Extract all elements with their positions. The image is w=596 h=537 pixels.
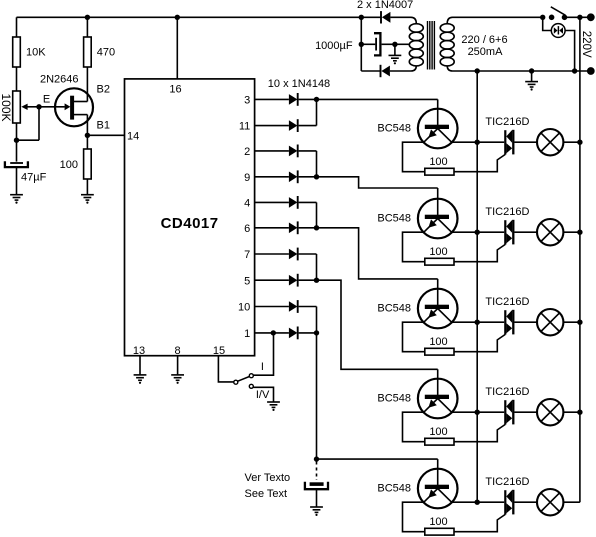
node pair output 9 <box>314 174 319 179</box>
wire D2 cathode <box>361 70 380 72</box>
transformer T1 secondary winding <box>409 24 423 66</box>
wire pair bus rows 4-6 <box>316 202 318 227</box>
lamp LP2 <box>537 219 563 245</box>
pin 7 label <box>244 249 250 261</box>
wire pair 10-1 down to stage 5 <box>316 333 318 459</box>
label Q4 BC548 <box>377 302 411 314</box>
svg-text:100: 100 <box>429 156 447 168</box>
pin 14 label <box>127 130 139 142</box>
svg-text:BC548: BC548 <box>377 482 411 494</box>
svg-text:BC548: BC548 <box>377 392 411 404</box>
switch S2 lever <box>238 377 250 382</box>
pin 1 label <box>244 328 250 340</box>
svg-text:100: 100 <box>60 159 78 171</box>
svg-text:CD4017: CD4017 <box>161 215 219 232</box>
svg-text:13: 13 <box>133 345 145 357</box>
wire wiper to pot bottom <box>17 139 40 141</box>
svg-text:9: 9 <box>244 172 250 184</box>
wire B1 node to R3 <box>86 135 88 149</box>
label See Text <box>245 488 288 500</box>
pin 8 label <box>175 345 181 357</box>
diode 1N4148 on pin 2 <box>289 145 298 158</box>
triac TRI1 TIC216D <box>505 130 513 155</box>
svg-text:220 / 6+6: 220 / 6+6 <box>461 34 507 46</box>
wire center tap <box>395 43 410 45</box>
transistor Q2 BC548 <box>418 109 458 149</box>
transistor Q3 BC548 <box>418 199 458 239</box>
transformer T1 core <box>428 21 435 70</box>
wire secondary bottom lead <box>411 66 417 71</box>
svg-text:TIC216D: TIC216D <box>485 386 529 398</box>
wire diode pin 5 cathode <box>299 279 317 281</box>
label R4 value 100 <box>429 156 447 168</box>
node collector bus stage 3 <box>475 320 480 325</box>
wire base route stage 4 <box>317 280 438 369</box>
resistor R7 100 <box>425 438 454 445</box>
transformer T1 primary winding <box>440 24 454 66</box>
diode 1N4148 on pin 10 <box>289 300 298 313</box>
wire R4 to gate <box>454 154 505 171</box>
wire base route stage 3 <box>317 228 438 279</box>
wire Q2 emitter to R4 <box>403 142 425 172</box>
wire R5 to gate <box>454 244 505 261</box>
label Q1 2N2646 <box>40 73 79 85</box>
node collector bus stage 5 <box>475 500 480 505</box>
transistor Q3 BC548 base lead <box>437 188 439 217</box>
node rail / D1 junction <box>359 15 364 20</box>
svg-text:BC548: BC548 <box>377 212 411 224</box>
diode 1N4148 on pin 11 <box>289 119 298 132</box>
pin 5 label <box>244 275 250 287</box>
pin 3 label <box>244 95 250 107</box>
wire left rail to 10K <box>16 17 18 37</box>
svg-text:I: I <box>261 361 264 373</box>
wire neon right <box>565 31 575 72</box>
wire switch to terminal <box>565 16 591 18</box>
wire diode pin 7 cathode <box>299 253 317 255</box>
wire pin 16 to rail <box>176 17 178 79</box>
wire bus to triac MT2 stage 1 <box>477 141 504 143</box>
wire lamp to rail stage 1 <box>563 141 580 143</box>
wire pin 7 stub <box>255 253 289 255</box>
wire diode pin 6 cathode <box>299 227 317 229</box>
svg-text:100: 100 <box>429 516 447 528</box>
switch S2 throw I contact <box>249 374 253 378</box>
pin 16 label <box>169 83 181 95</box>
svg-text:BC548: BC548 <box>377 302 411 314</box>
wire pin 1 stub <box>255 332 289 334</box>
svg-text:100: 100 <box>429 336 447 348</box>
svg-text:TIC216D: TIC216D <box>485 206 529 218</box>
wire Q5 emitter to R7 <box>403 412 425 442</box>
svg-text:B1: B1 <box>97 120 110 132</box>
transistor Q1 2N2646 UJT <box>39 88 93 126</box>
node rail lamp 1 <box>577 140 582 145</box>
node bottom wire / MT2 bus <box>475 68 480 73</box>
potentiometer P1 wiper arrow <box>21 104 39 110</box>
svg-text:47µF: 47µF <box>21 172 47 184</box>
wire pin 5 stub <box>255 279 289 281</box>
label C2 value 1000uF <box>315 40 353 52</box>
wire wiper junction down <box>38 107 40 140</box>
wire diode pin 10 cathode <box>299 306 317 308</box>
wire B1 node to pin 14 <box>87 134 124 136</box>
svg-text:2 x 1N4007: 2 x 1N4007 <box>357 0 413 11</box>
svg-text:10 x 1N4148: 10 x 1N4148 <box>268 78 330 90</box>
wire base route stage 1 <box>317 98 438 100</box>
svg-text:250mA: 250mA <box>468 46 504 58</box>
lamp LP3 <box>537 309 563 335</box>
wire base route stage 5 <box>317 458 438 460</box>
svg-text:15: 15 <box>213 345 225 357</box>
wire throw I to pin1 row <box>253 333 273 375</box>
resistor R1 10K <box>13 37 21 67</box>
transistor Q6 BC548 base lead <box>437 459 439 487</box>
node collector bus stage 4 <box>475 410 480 415</box>
wire Q4 collector to bus <box>452 321 478 323</box>
svg-text:6: 6 <box>244 223 250 235</box>
label T1 220 / 6+6 <box>461 34 507 46</box>
lamp LP1 <box>537 129 563 155</box>
capacitor C1 47uF <box>5 161 28 167</box>
wire bus to triac MT2 stage 2 <box>477 231 504 233</box>
node top rail / pin16 junction <box>175 15 180 20</box>
wire secondary top lead <box>411 17 417 23</box>
label T1 250mA <box>468 46 504 58</box>
diode 1N4148 on pin 3 <box>289 93 298 106</box>
wire B1 down to node <box>86 115 88 136</box>
wire lamp to rail stage 3 <box>563 321 580 323</box>
label E <box>43 94 50 106</box>
triac TRI2 TIC216D <box>505 220 513 245</box>
node pin1 row to switch <box>271 330 276 335</box>
wire Q3 collector to bus <box>452 231 478 233</box>
diode 1N4148 on pin 4 <box>289 196 298 209</box>
wire diode pin 4 cathode <box>299 201 317 203</box>
resistor R8 100 <box>425 528 454 535</box>
label R2 value 470 <box>97 47 115 59</box>
wire pair bus rows 2-9 <box>316 151 318 177</box>
node collector bus stage 1 <box>475 140 480 145</box>
wire diode pin 2 cathode <box>299 150 317 152</box>
svg-text:I/V: I/V <box>256 389 270 401</box>
label TRI3 TIC216D <box>485 296 529 308</box>
svg-text:3: 3 <box>244 95 250 107</box>
label I <box>261 361 264 373</box>
capacitor C2 1000uF <box>374 33 380 55</box>
wire 470 top <box>86 17 88 37</box>
wire pair bus rows 7-5 <box>316 254 318 280</box>
wire C2 left lead <box>361 43 375 45</box>
label Q2 BC548 <box>377 122 411 134</box>
resistor R4 100 <box>425 168 454 175</box>
wire R7 to gate <box>454 424 505 441</box>
wire R8 to gate <box>454 514 505 531</box>
lamp LP5 <box>537 489 563 515</box>
label TRI4 TIC216D <box>485 386 529 398</box>
wire Q6 collector to bus <box>452 501 478 503</box>
label TRI5 TIC216D <box>485 476 529 488</box>
node C2 ground junction <box>392 42 397 47</box>
node 220V rail junction <box>577 15 582 20</box>
wire pin 11 stub <box>255 125 289 127</box>
wire pair bus rows 10-1 <box>316 307 318 333</box>
svg-text:470: 470 <box>97 47 115 59</box>
wire lamp to rail stage 2 <box>563 231 580 233</box>
node rail lamp 4 <box>577 410 582 415</box>
svg-text:4: 4 <box>244 198 250 210</box>
wire primary top lead <box>447 17 543 23</box>
lamp LP4 <box>537 399 563 425</box>
diode 1N4148 on pin 7 <box>289 248 298 261</box>
label B2 <box>97 84 110 96</box>
wire bus to triac MT2 stage 3 <box>477 321 504 323</box>
wire rectifier vertical <box>360 17 362 71</box>
wire Q6 emitter to R8 <box>403 502 425 532</box>
transistor Q5 BC548 <box>418 379 458 419</box>
label 10 x 1N4148 <box>268 78 330 90</box>
wire triac to lamp stage 3 <box>514 321 537 323</box>
resistor R2 470 <box>84 37 92 67</box>
node pair output 5 <box>314 278 319 283</box>
ground below R3 <box>81 179 94 204</box>
wire neon left <box>543 17 552 30</box>
wire pin 10 stub <box>255 306 289 308</box>
node pair output 1 <box>314 330 319 335</box>
wire pot to C1 <box>16 123 18 162</box>
label Q6 BC548 <box>377 482 411 494</box>
transistor Q4 BC548 base lead <box>437 279 439 307</box>
pin 10 label <box>238 302 250 314</box>
wire C2 right lead <box>382 43 395 45</box>
svg-text:See Text: See Text <box>245 488 288 500</box>
node stage 5 base / C3 junction <box>314 456 319 461</box>
switch S1 contacts <box>549 14 568 20</box>
node neon / bottom wire <box>572 68 577 73</box>
label Q3 BC548 <box>377 212 411 224</box>
terminal 220V top <box>587 13 595 21</box>
wire pin 3 stub <box>255 98 289 100</box>
transistor Q4 BC548 <box>418 289 458 329</box>
wire lamp 5 to rail corner <box>563 501 580 503</box>
svg-text:10K: 10K <box>26 47 46 59</box>
node rail lamp 2 <box>577 230 582 235</box>
svg-text:5: 5 <box>244 275 250 287</box>
label R1 value 10K <box>26 47 46 59</box>
wire 10K to pot <box>16 67 18 91</box>
label R6 value 100 <box>429 336 447 348</box>
triac TRI5 TIC216D <box>505 490 513 515</box>
resistor R5 100 <box>425 258 454 265</box>
svg-text:14: 14 <box>127 130 139 142</box>
pin 6 label <box>244 223 250 235</box>
pin 4 label <box>244 198 250 210</box>
svg-text:1000µF: 1000µF <box>315 40 353 52</box>
label P1 value 100K rotated <box>0 93 13 121</box>
ground below C1 <box>10 167 23 204</box>
wire pin 6 stub <box>255 227 289 229</box>
label U1 CD4017 <box>161 215 219 232</box>
wire bus to triac MT2 stage 5 <box>477 501 504 503</box>
svg-text:E: E <box>43 94 50 106</box>
label 220V rotated <box>580 31 592 58</box>
label TRI2 TIC216D <box>485 206 529 218</box>
node C2 junction <box>359 42 364 47</box>
wire primary bottom lead <box>447 66 590 71</box>
svg-text:TIC216D: TIC216D <box>485 296 529 308</box>
diode 1N4148 on pin 9 <box>289 170 298 183</box>
wire pair bus rows 3-11 <box>316 99 318 125</box>
svg-text:100: 100 <box>429 246 447 258</box>
wire diode pin 3 cathode <box>299 98 317 100</box>
wire base route stage 2 <box>317 177 438 188</box>
wire C3 dashed lead <box>316 462 318 481</box>
node bottom wire / ground <box>529 68 534 73</box>
svg-text:2: 2 <box>244 146 250 158</box>
wire triac to lamp stage 1 <box>514 141 537 143</box>
switch S2 throw I/V contact <box>249 384 253 388</box>
node E wiper junction <box>36 104 41 109</box>
diode 1N4148 on pin 1 <box>289 327 298 340</box>
node pair output 6 <box>314 225 319 230</box>
svg-text:1: 1 <box>244 328 250 340</box>
svg-text:TIC216D: TIC216D <box>485 116 529 128</box>
wire MT2 bus <box>476 71 478 502</box>
switch S1 lever <box>551 7 566 16</box>
wire lamp to rail stage 4 <box>563 411 580 413</box>
wire pin 15 to switch <box>218 356 233 382</box>
triac TRI4 TIC216D <box>505 400 513 425</box>
svg-text:100: 100 <box>429 426 447 438</box>
svg-text:100K: 100K <box>0 93 13 121</box>
wire bus to triac MT2 stage 4 <box>477 411 504 413</box>
wire Q2 collector to bus <box>452 141 478 143</box>
label R8 value 100 <box>429 516 447 528</box>
ground below I/V switch <box>267 402 280 411</box>
wire triac to lamp stage 5 <box>514 501 537 503</box>
wire pin 4 stub <box>255 201 289 203</box>
label R7 value 100 <box>429 426 447 438</box>
label C1 value 47uF <box>21 172 47 184</box>
ground pin 8 <box>171 356 184 384</box>
svg-text:2N2646: 2N2646 <box>40 73 79 85</box>
transistor Q6 BC548 <box>418 469 458 509</box>
ground below C2 <box>389 44 402 64</box>
node primary top / neon junction <box>540 15 545 20</box>
svg-text:B2: B2 <box>97 84 110 96</box>
svg-text:10: 10 <box>238 302 250 314</box>
wire diode pin 11 cathode <box>299 125 317 127</box>
triac TRI3 TIC216D <box>505 310 513 335</box>
diode 1N4148 on pin 6 <box>289 221 298 234</box>
svg-text:TIC216D: TIC216D <box>485 476 529 488</box>
ground below C3 <box>310 489 323 516</box>
ground pin 13 <box>134 356 147 384</box>
capacitor C3 (see text) <box>305 482 328 490</box>
wire Q4 emitter to R6 <box>403 322 425 352</box>
svg-text:Ver Texto: Ver Texto <box>245 472 291 484</box>
label 2 x 1N4007 <box>357 0 413 11</box>
node collector bus stage 2 <box>475 230 480 235</box>
potentiometer P1 100K body <box>13 91 21 123</box>
diode 1N4148 on pin 5 <box>289 274 298 287</box>
op-amp U1 CD4017 IC body <box>125 79 255 356</box>
ground below bottom wire <box>525 71 538 91</box>
label R3 value 100 <box>60 159 78 171</box>
pin 13 label <box>133 345 145 357</box>
svg-text:220V: 220V <box>580 31 592 58</box>
wire R6 to gate <box>454 334 505 351</box>
label Q5 BC548 <box>377 392 411 404</box>
terminal 220V bottom <box>587 67 595 75</box>
wire pin 9 stub <box>255 176 289 178</box>
wire Q3 emitter to R5 <box>403 232 425 262</box>
resistor R3 100 <box>84 149 92 179</box>
switch S2 pole contact <box>234 380 238 384</box>
svg-text:11: 11 <box>239 121 250 133</box>
wire triac to lamp stage 4 <box>514 411 537 413</box>
svg-text:16: 16 <box>169 83 181 95</box>
pin 15 label <box>213 345 225 357</box>
pin 11 label <box>239 121 250 133</box>
pin 9 label <box>244 172 250 184</box>
node B1 / pin14 junction <box>85 133 90 138</box>
node pot bottom / C1 junction <box>14 138 19 143</box>
resistor R6 100 <box>425 348 454 355</box>
diode D2 1N4007 <box>381 65 390 77</box>
pin 2 label <box>244 146 250 158</box>
label Ver Texto <box>245 472 291 484</box>
wire D2 to transformer <box>390 70 411 72</box>
wire top supply rail <box>17 16 362 18</box>
neon lamp NE1 <box>551 24 565 38</box>
transistor Q5 BC548 base lead <box>437 369 439 397</box>
wire 470 to B2 <box>86 67 88 102</box>
node rail lamp 3 <box>577 320 582 325</box>
wire Q5 collector to bus <box>452 411 478 413</box>
node top rail / 470 junction <box>85 15 90 20</box>
wire rail to D1 <box>361 16 381 18</box>
node pair output 3 <box>314 97 319 102</box>
label R5 value 100 <box>429 246 447 258</box>
wire pin 2 stub <box>255 150 289 152</box>
wire diode pin 9 cathode <box>299 176 317 178</box>
label B1 <box>97 120 110 132</box>
svg-text:7: 7 <box>244 249 250 261</box>
transistor Q2 BC548 base lead <box>437 99 439 127</box>
wire throw I/V to ground <box>253 387 273 402</box>
wire triac to lamp stage 2 <box>514 231 537 233</box>
label I/V <box>256 389 270 401</box>
svg-text:8: 8 <box>175 345 181 357</box>
wire 220V rail <box>579 17 581 502</box>
wire diode pin 1 cathode <box>299 332 317 334</box>
svg-text:BC548: BC548 <box>377 122 411 134</box>
label TRI1 TIC216D <box>485 116 529 128</box>
diode D1 1N4007 <box>381 11 390 23</box>
wire D1 to transformer <box>390 16 410 18</box>
